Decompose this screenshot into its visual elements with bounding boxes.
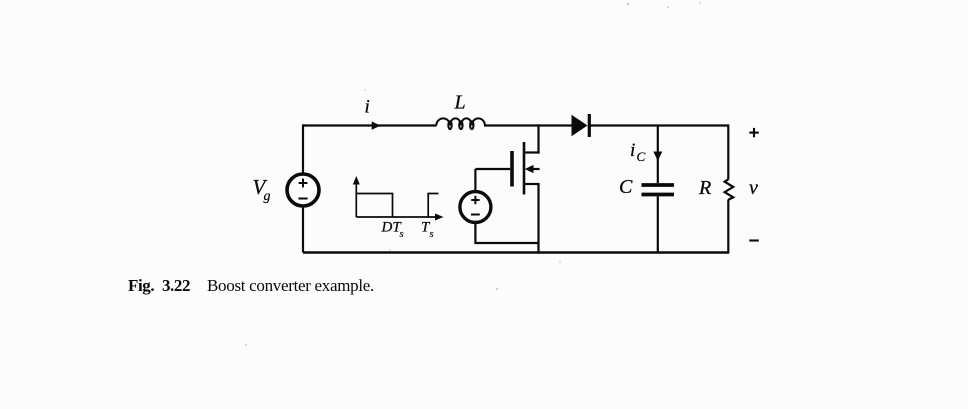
inductor L xyxy=(436,118,485,129)
wire left rail lower xyxy=(302,207,304,252)
current arrow i xyxy=(372,121,381,129)
channel bar xyxy=(523,142,526,195)
source vertical xyxy=(537,184,539,254)
gate bar xyxy=(510,151,514,187)
wire driver bottom xyxy=(475,223,538,243)
wire right rail lower xyxy=(727,200,729,254)
drain vertical xyxy=(537,124,539,153)
svg-text:Boost converter example.: Boost converter example. xyxy=(207,276,374,295)
wire right rail upper xyxy=(727,124,729,179)
wire bottom rail xyxy=(303,251,728,254)
wire top rail inductor-to-diode segment xyxy=(484,124,572,126)
capacitor branch wire upper xyxy=(657,126,659,184)
svg-text:C: C xyxy=(619,176,633,198)
wire top rail diode-to-right segment xyxy=(590,124,728,126)
capacitor C plates xyxy=(642,185,675,195)
svg-text:i: i xyxy=(365,97,370,118)
wire left rail upper xyxy=(302,124,304,172)
voltage source Vg xyxy=(287,174,319,206)
wire driver top xyxy=(474,169,476,191)
wire top rail left segment xyxy=(303,124,437,126)
svg-text:Fig. 3.22: Fig. 3.22 xyxy=(128,276,190,295)
svg-text:v: v xyxy=(749,177,758,199)
capacitor current arrow xyxy=(653,152,662,162)
resistor R xyxy=(725,179,734,199)
body arrow xyxy=(525,165,534,173)
MOSFET Q1 xyxy=(475,124,539,253)
label - output xyxy=(749,239,759,241)
gate driver source xyxy=(460,192,491,223)
diode D1 xyxy=(572,115,588,136)
capacitor branch wire lower xyxy=(657,197,659,253)
gate lead xyxy=(475,168,510,170)
svg-text:s: s xyxy=(400,229,404,240)
gate pulse waveform xyxy=(356,182,438,217)
svg-text:C: C xyxy=(637,149,646,164)
svg-text:R: R xyxy=(698,177,711,199)
source stub xyxy=(524,183,540,185)
svg-text:s: s xyxy=(430,229,434,240)
label + output xyxy=(749,128,759,137)
drain stub xyxy=(524,151,540,153)
scan speckles (noise) xyxy=(245,2,701,346)
svg-text:L: L xyxy=(454,92,466,114)
svg-text:g: g xyxy=(264,189,271,204)
svg-text:i: i xyxy=(630,140,635,161)
body stub xyxy=(529,168,540,170)
